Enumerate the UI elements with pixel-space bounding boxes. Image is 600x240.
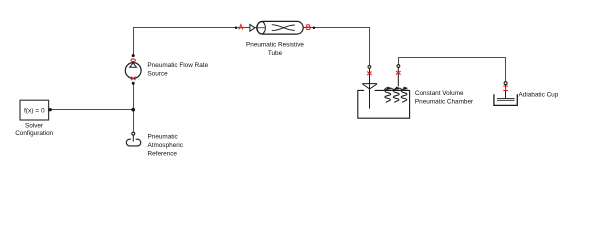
svg-text:Solver: Solver — [25, 123, 44, 130]
svg-text:Pneumatic Flow Rate: Pneumatic Flow Rate — [147, 62, 208, 69]
svg-text:f(x) = 0: f(x) = 0 — [24, 107, 45, 114]
svg-text:Constant Volume: Constant Volume — [415, 90, 464, 97]
svg-text:Atmospheric: Atmospheric — [148, 142, 184, 149]
svg-text:Pneumatic Resistive: Pneumatic Resistive — [246, 42, 304, 49]
svg-text:Reference: Reference — [148, 150, 178, 157]
svg-text:Pneumatic Chamber: Pneumatic Chamber — [415, 98, 474, 105]
svg-text:Tube: Tube — [268, 50, 283, 57]
svg-text:Configuration: Configuration — [15, 130, 53, 137]
svg-text:Pneumatic: Pneumatic — [148, 133, 179, 140]
svg-text:Source: Source — [147, 71, 168, 78]
svg-text:Adiabatic Cup: Adiabatic Cup — [519, 91, 559, 98]
